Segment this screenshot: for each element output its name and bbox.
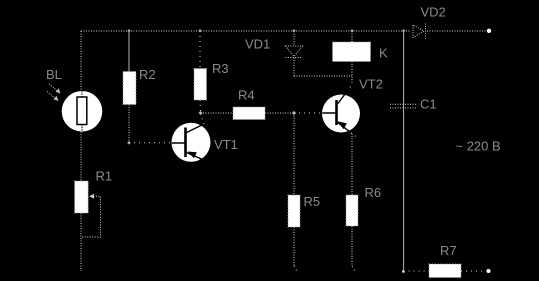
svg-text:K: K: [379, 46, 388, 61]
wire R7 to AC terminal: [461, 270, 486, 272]
photoresistor BL: [62, 91, 103, 132]
wire R5 column: [293, 113, 295, 195]
wire top supply bus: [81, 30, 487, 32]
resistor R5: [288, 195, 300, 227]
resistor R3: [194, 69, 207, 101]
svg-text:R4: R4: [238, 88, 255, 103]
wire relay column from bus: [351, 31, 353, 42]
wire VT2 emitter down to R6: [351, 134, 353, 196]
wire R2 column from bus: [128, 31, 130, 72]
wire C1 column (solid): [403, 31, 405, 271]
wire VD1 cathode down: [293, 58, 295, 77]
resistor R7: [429, 264, 461, 278]
svg-text:R7: R7: [440, 243, 457, 258]
node junction on bus at VD1 column: [292, 29, 295, 32]
resistor R4: [233, 107, 265, 120]
wire VT2 collector stub: [350, 84, 352, 88]
wire BL bottom to R1: [80, 132, 82, 181]
svg-text:R3: R3: [212, 61, 229, 76]
wire R2 bottom: [128, 105, 130, 143]
svg-text:VD2: VD2: [421, 5, 446, 20]
wire R1 wiper loop: [82, 194, 101, 237]
svg-text:R2: R2: [139, 67, 156, 82]
wire C1 column to R7: [404, 270, 429, 272]
node junction R4/R5/VT2 base: [292, 111, 296, 115]
svg-text:R5: R5: [304, 194, 321, 209]
wire R3 bottom to node: [199, 100, 202, 113]
resistor R1 (variable): [75, 181, 89, 213]
wire left column from bus to photoresistor: [80, 31, 82, 92]
node junction on bus at relay column: [350, 29, 353, 32]
relay coil K: [333, 42, 371, 62]
transistor VT2: [322, 88, 360, 137]
wire R2 to VT1 base: [129, 142, 172, 144]
diode VD1: [286, 46, 303, 58]
svg-text:~ 220 В: ~ 220 В: [456, 139, 501, 154]
wire R6 bottom: [352, 226, 356, 273]
svg-text:R6: R6: [365, 185, 382, 200]
node junction on bus at R2 column: [127, 29, 130, 32]
light arrow 1 into BL: [49, 84, 61, 94]
node small dot at C1 column bottom: [402, 270, 405, 273]
node junction at R2 bottom: [127, 141, 131, 145]
wire R3 column from bus: [199, 31, 201, 69]
wire VD1 column from bus: [293, 31, 295, 46]
resistor R2: [123, 72, 136, 105]
svg-text:VT1: VT1: [214, 137, 238, 152]
svg-text:VD1: VD1: [245, 37, 270, 52]
wire R5 bottom: [294, 227, 298, 273]
light arrow 2 into BL: [47, 92, 59, 102]
diode VD2: [413, 24, 426, 39]
svg-text:BL: BL: [46, 67, 62, 82]
wire VD1 to relay bottom: [294, 75, 352, 77]
node junction collector VT1 / R4: [198, 111, 202, 115]
capacitor C1: [390, 104, 417, 108]
wire node to R4: [201, 112, 234, 114]
wire node to VT2 base: [294, 112, 322, 114]
wire VT1 collector to node: [201, 114, 205, 125]
transistor VT1: [172, 123, 211, 162]
wire R1 bottom to lower terminal: [80, 213, 82, 271]
svg-text:C1: C1: [420, 97, 437, 112]
node junction on bus at C1 column: [402, 29, 405, 32]
resistor R6: [346, 195, 358, 226]
wire relay bottom to VT2 collector: [351, 62, 353, 85]
node AC terminal bottom right: [487, 269, 491, 273]
node junction on bus at R3 column: [198, 29, 201, 32]
node AC terminal top right: [487, 29, 491, 33]
svg-text:R1: R1: [96, 169, 113, 184]
wire R4 to R5 node: [265, 112, 294, 114]
svg-text:VT2: VT2: [359, 77, 383, 92]
